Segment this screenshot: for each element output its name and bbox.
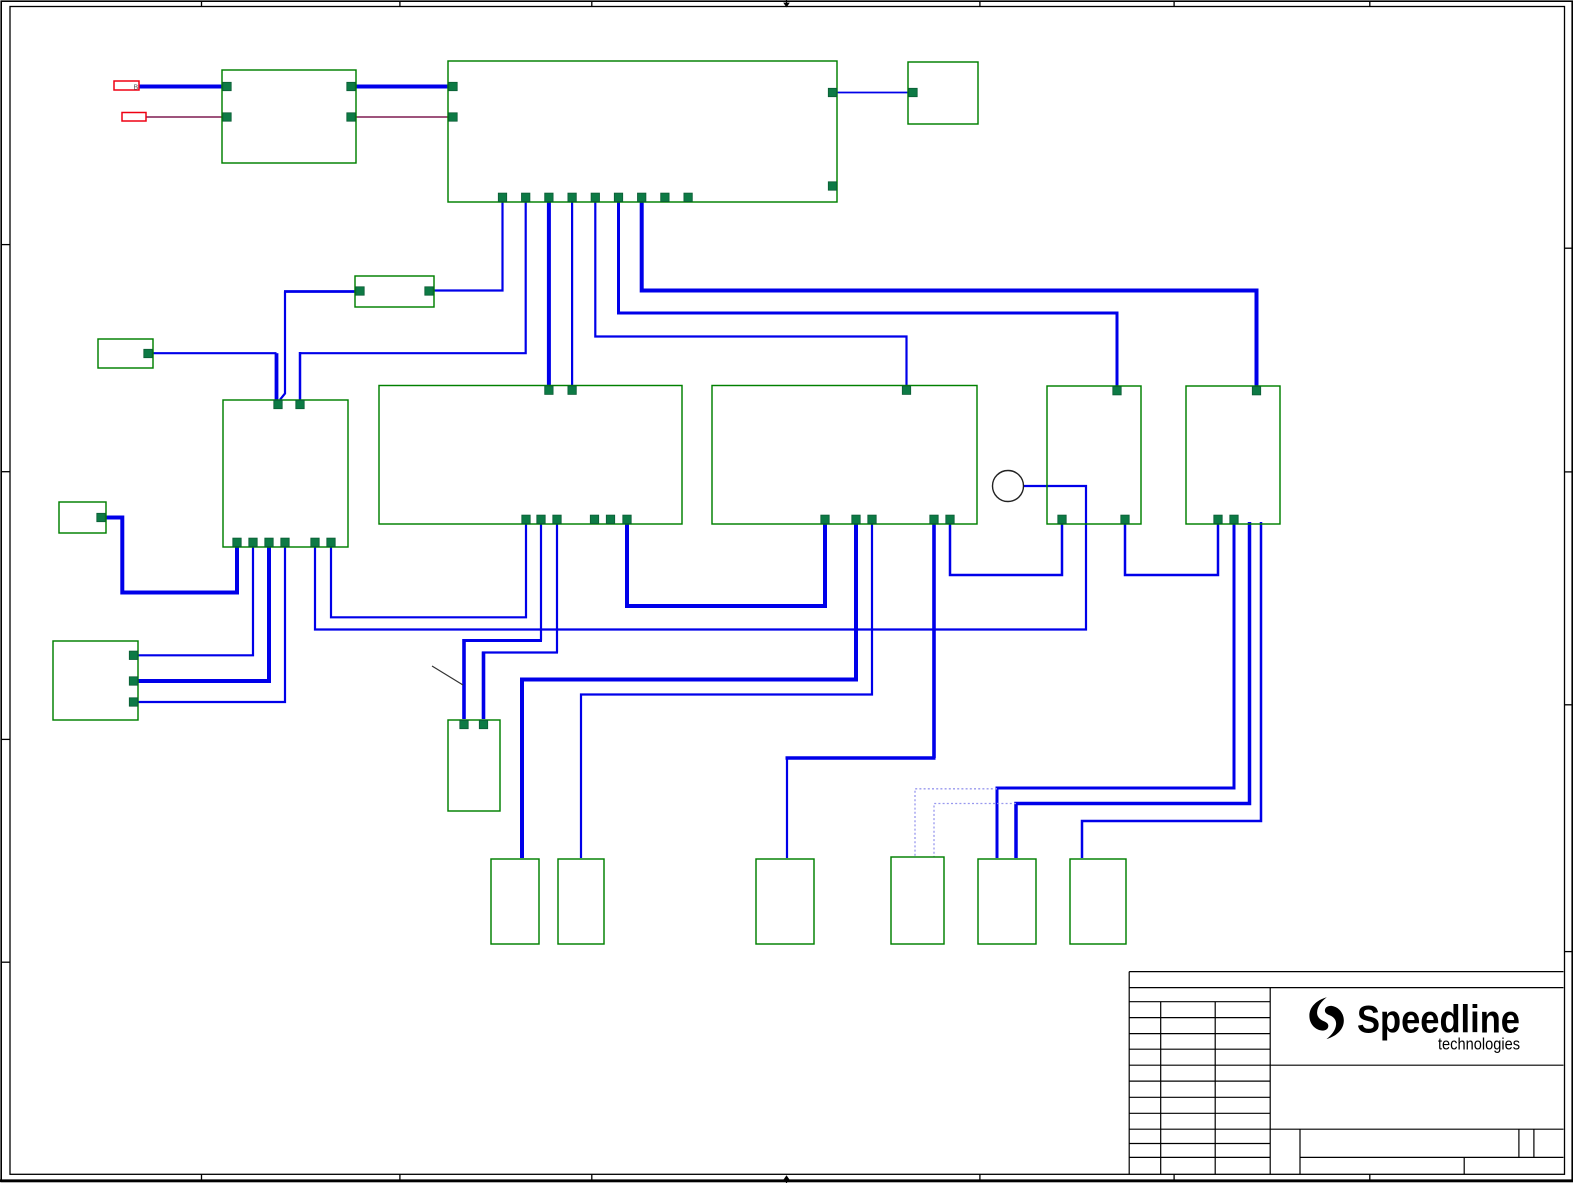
svg-text:B: B bbox=[134, 85, 139, 92]
svg-text:technologies: technologies bbox=[1438, 1035, 1520, 1054]
